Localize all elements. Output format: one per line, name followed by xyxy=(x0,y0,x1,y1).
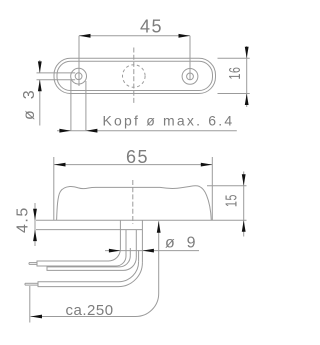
svg-text:ø 3: ø 3 xyxy=(21,89,38,120)
svg-text:16: 16 xyxy=(227,67,244,80)
svg-text:Kopf ø max. 6.4: Kopf ø max. 6.4 xyxy=(103,113,235,129)
svg-text:ø 9: ø 9 xyxy=(165,235,197,252)
svg-text:15: 15 xyxy=(224,194,241,207)
svg-text:4.5: 4.5 xyxy=(15,206,32,233)
svg-text:ca.250: ca.250 xyxy=(66,302,114,319)
svg-text:65: 65 xyxy=(126,147,149,167)
svg-text:45: 45 xyxy=(140,17,163,37)
